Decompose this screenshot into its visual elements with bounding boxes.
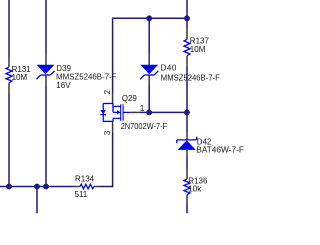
svg-text:1: 1: [140, 104, 145, 113]
svg-text:10M: 10M: [190, 45, 206, 54]
svg-text:2: 2: [103, 89, 112, 94]
svg-text:511: 511: [75, 190, 88, 199]
svg-text:D40: D40: [161, 63, 177, 72]
svg-text:10M: 10M: [12, 73, 28, 82]
svg-text:BAT46W-7-F: BAT46W-7-F: [196, 146, 244, 155]
svg-text:Q29: Q29: [122, 94, 138, 103]
svg-text:3: 3: [103, 130, 112, 135]
svg-text:2N7002W-7-F: 2N7002W-7-F: [121, 122, 168, 131]
svg-text:16V: 16V: [56, 81, 71, 90]
svg-text:MMSZ5246B-7-F: MMSZ5246B-7-F: [161, 74, 220, 83]
svg-text:R134: R134: [75, 175, 95, 184]
svg-text:10k: 10k: [188, 185, 202, 194]
